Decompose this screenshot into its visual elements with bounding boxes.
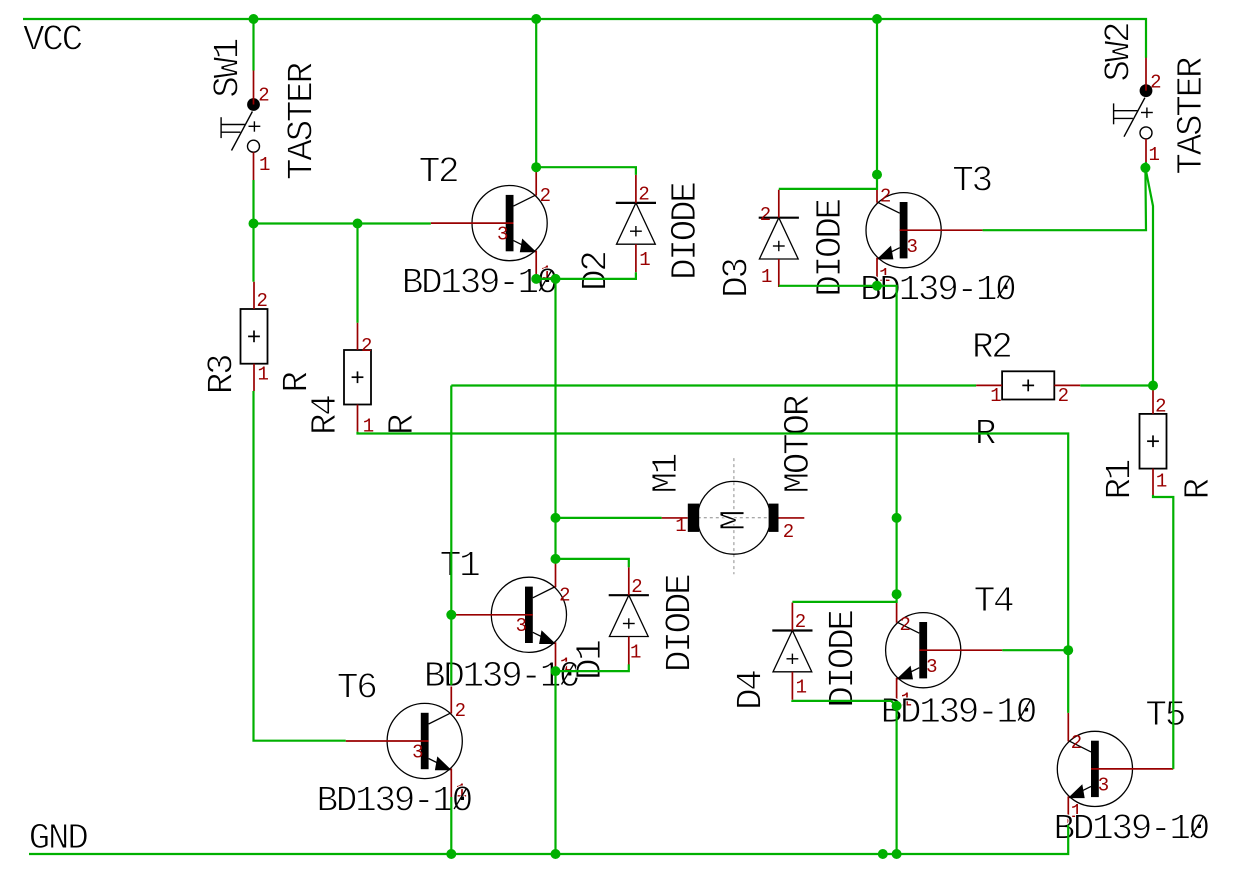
slashed zero mark — [562, 665, 574, 685]
junction VCC/SW1 — [249, 14, 259, 24]
slashed zero mark — [539, 271, 551, 291]
wire T1 emitter to D1 pin1 — [556, 664, 629, 671]
wire node to R3 pin2 — [252, 224, 254, 282]
junction motor pin1 — [551, 513, 561, 523]
svg-text:T1: T1 — [440, 546, 479, 587]
svg-text:TASTER: TASTER — [282, 62, 323, 180]
svg-text:R1: R1 — [1100, 460, 1141, 499]
junction GND/T4e — [892, 849, 902, 859]
wire T2 emitter column to T1 collector — [554, 279, 556, 559]
svg-text:DIODE: DIODE — [665, 183, 706, 280]
wire T3 base to SW2 pin1 — [983, 168, 1146, 230]
resistor R2 — [976, 371, 1080, 407]
diode D4 — [772, 603, 812, 700]
resistor R4 — [344, 323, 374, 438]
svg-text:T6: T6 — [337, 668, 376, 709]
junction GND a — [878, 849, 888, 859]
svg-text:VCC: VCC — [23, 20, 83, 61]
junction VCC/T2 — [531, 14, 541, 24]
slashed zero mark — [998, 278, 1010, 298]
junction T2 emitter b — [551, 274, 561, 284]
svg-text:M1: M1 — [646, 454, 687, 493]
svg-text:DIODE: DIODE — [810, 199, 851, 296]
wire R3 pin1 to T6 base — [254, 391, 346, 741]
wire R1 pin1 to T5 base — [1153, 495, 1173, 769]
svg-text:MOTOR: MOTOR — [778, 395, 819, 493]
svg-text:R3: R3 — [202, 355, 243, 394]
junction T1 emitter — [551, 666, 561, 676]
junction R2/R1 — [1148, 381, 1158, 391]
junction T1 collector — [551, 554, 561, 564]
svg-text:GND: GND — [29, 818, 88, 859]
wire T2 collector to D2 pin2 — [536, 167, 636, 175]
junction GND/T1e — [551, 849, 561, 859]
svg-text:T4: T4 — [974, 581, 1013, 622]
diode D2 — [616, 175, 656, 272]
wire T4 collector to D4 pin2 — [792, 594, 896, 602]
wire VCC to T2 collector — [535, 19, 537, 167]
diode D3 — [759, 190, 799, 288]
svg-text:R2: R2 — [972, 327, 1011, 368]
junction VCC/T3 — [872, 14, 882, 24]
svg-text:DIODE: DIODE — [660, 575, 701, 672]
junction T2 emitter a — [531, 274, 541, 284]
slashed zero mark — [1018, 701, 1030, 721]
svg-text:DIODE: DIODE — [823, 611, 864, 708]
svg-text:T2: T2 — [419, 152, 458, 193]
svg-text:D1: D1 — [570, 641, 611, 680]
wire node to R4 pin2 — [356, 224, 358, 323]
junction T4 collector — [892, 589, 902, 599]
wire T6 emitter to GND — [450, 797, 452, 854]
transistor T1 (BD139-10) — [451, 559, 571, 677]
junction T3 collector — [872, 170, 882, 180]
switch SW2 (TASTER) — [1114, 57, 1162, 167]
junction T2 collector — [531, 162, 541, 172]
junction T4 base / T5 collector — [1063, 645, 1073, 655]
diode D1 — [609, 567, 649, 664]
junction T4 emitter — [892, 701, 902, 711]
wire motor pin1 — [556, 517, 662, 519]
wire SW2 pin1 to R1 pin2 — [1145, 168, 1153, 386]
resistor R3 — [241, 282, 269, 391]
svg-text:R: R — [1178, 479, 1219, 500]
transistor T3 (BD139-10) — [866, 174, 983, 287]
svg-text:T3: T3 — [952, 161, 991, 202]
svg-text:D3: D3 — [716, 259, 757, 298]
junction T1 base — [446, 610, 456, 620]
wire T1 emitter to GND — [554, 671, 556, 854]
wire VCC to T3 collector — [876, 19, 878, 175]
wire GND rail / net GND — [29, 825, 1068, 854]
slashed zero mark — [1191, 817, 1203, 837]
transistor T4 (BD139-10) — [886, 594, 1003, 711]
svg-text:TASTER: TASTER — [1171, 57, 1212, 175]
transistor T6 (BD139-10) — [346, 685, 467, 803]
svg-text:R: R — [277, 372, 318, 393]
svg-text:BD139-10: BD139-10 — [860, 270, 1015, 311]
junction SW2 pin1 — [1140, 163, 1150, 173]
wire T3 collector to D3 pin2 — [779, 175, 877, 189]
svg-text:BD139-10: BD139-10 — [881, 692, 1036, 733]
wire VCC rail / net VCC — [23, 19, 1146, 58]
transistor T5 (BD139-10) — [1057, 713, 1173, 825]
wire SW1 pin2 drop — [252, 19, 254, 71]
resistor R1 — [1140, 387, 1167, 496]
junction motor pin2 — [892, 513, 902, 523]
svg-text:SW1: SW1 — [207, 39, 248, 98]
wire T1 collector to D1 pin2 — [556, 559, 629, 567]
switch SW1 (TASTER) — [221, 71, 270, 181]
transistor T2 (BD139-10) — [431, 167, 552, 284]
svg-text:M: M — [714, 511, 755, 531]
svg-text:BD139-10: BD139-10 — [1054, 809, 1209, 850]
wire node to R2 pin1 — [451, 384, 976, 386]
wire T4 base to junction — [1002, 649, 1068, 651]
svg-text:R4: R4 — [305, 396, 346, 435]
motor M1 — [662, 458, 805, 574]
wire T2 emitter to D2 pin1 — [536, 272, 636, 279]
wire R2 pin1 / T1 base / T6 collector — [450, 386, 452, 686]
wire SW2 pin1 stub — [1144, 162, 1147, 168]
svg-text:T5: T5 — [1145, 695, 1184, 736]
wire D4 pin1 to T4 emitter — [792, 700, 896, 706]
svg-text:D2: D2 — [576, 252, 617, 291]
wire T2 base net — [254, 222, 431, 224]
wire R2 pin2 to node — [1080, 384, 1153, 386]
junction T3 emitter — [872, 281, 882, 291]
junction GND/T6e — [446, 849, 456, 859]
wire D3 pin1 / T3 emitter to T4 collector — [779, 286, 897, 594]
svg-text:BD139-10: BD139-10 — [317, 781, 472, 822]
svg-text:R: R — [382, 414, 423, 435]
wire T4 emitter to GND — [895, 706, 897, 854]
wire R4 pin1 to T4 base / T5 collector — [358, 432, 1069, 713]
svg-text:SW2: SW2 — [1099, 23, 1140, 82]
svg-text:D4: D4 — [730, 671, 771, 710]
wire SW1 pin1 to node — [252, 180, 254, 224]
slashed zero mark — [454, 789, 466, 809]
junction R4 tap — [353, 219, 363, 229]
junction SW1/R3/T2-base — [249, 219, 259, 229]
